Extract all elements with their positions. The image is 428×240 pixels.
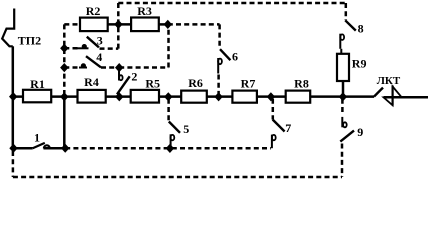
- wire riser to R3 node dashed: [167, 27, 170, 68]
- node R2-R3: [114, 20, 122, 29]
- resistor R4: [78, 90, 106, 103]
- switch 1 fixed contact: [44, 145, 50, 148]
- svg-text:9: 9: [357, 125, 363, 139]
- switch 5 blade: [169, 122, 180, 133]
- switch 6 fixed contact: [218, 58, 222, 74]
- switch 9 blade: [340, 131, 354, 142]
- wire sw9 drop dashed: [341, 99, 344, 113]
- node sw1-right: [61, 144, 69, 153]
- switch 2 fixed contact: [119, 71, 123, 81]
- contact LKT upper triangle: [393, 87, 402, 98]
- node sw4-left: [60, 63, 68, 72]
- wire left dashed rail: [63, 24, 66, 95]
- svg-text:7: 7: [285, 121, 291, 135]
- svg-text:1: 1: [34, 130, 40, 144]
- node R4-R5: [115, 92, 123, 101]
- wire bottom dashed rail: [13, 176, 342, 179]
- wire sw9 to bottom rail dashed: [341, 144, 344, 178]
- thermal contact TP2: [2, 9, 14, 47]
- svg-text:5: 5: [183, 122, 189, 136]
- wire middle dashed rail: [65, 147, 271, 150]
- wire LKT right: [384, 96, 428, 99]
- svg-text:R6: R6: [188, 76, 203, 90]
- wire R2 elbow dashed: [64, 23, 79, 26]
- switch 7 fixed contact: [272, 135, 276, 149]
- node sw5-bottom: [166, 144, 174, 153]
- svg-text:2: 2: [131, 70, 137, 84]
- wire R2-R3: [108, 23, 131, 26]
- node R6-R7: [214, 92, 222, 101]
- wire sw1 right segment: [44, 147, 66, 150]
- switch 8 blade: [345, 20, 356, 30]
- wire main line: [13, 95, 374, 98]
- node R9-bottom: [339, 92, 347, 101]
- wire sw6 to main dashed: [217, 75, 220, 95]
- node R1-right: [60, 92, 68, 101]
- contact LKT lower triangle: [384, 97, 393, 105]
- svg-text:R1: R1: [30, 77, 45, 91]
- switch 4 fixed contact: [79, 64, 87, 68]
- svg-text:3: 3: [97, 33, 103, 47]
- resistor R3: [131, 18, 159, 32]
- resistor R9: [337, 54, 349, 81]
- wire sw1 left segment: [13, 147, 33, 150]
- svg-text:ТП2: ТП2: [18, 33, 41, 47]
- switch 1 blade: [33, 143, 45, 148]
- node sw2-top: [115, 63, 123, 72]
- wire sw3 to riser dashed: [100, 47, 119, 50]
- svg-text:R3: R3: [137, 4, 152, 18]
- svg-text:R5: R5: [145, 76, 160, 90]
- svg-text:ЛКТ: ЛКТ: [377, 75, 401, 87]
- svg-text:4: 4: [96, 50, 102, 64]
- wire sw3 riser dashed: [117, 27, 120, 49]
- wire sw7 drop dashed: [272, 99, 275, 120]
- switch 5 fixed contact: [171, 134, 175, 147]
- switch 7 blade: [273, 120, 285, 132]
- wire top rail left drop: [117, 3, 120, 21]
- wire R3-right: [159, 23, 168, 26]
- svg-text:8: 8: [358, 22, 364, 36]
- wire left rail upper: [12, 46, 15, 96]
- wire top dashed rail: [118, 2, 345, 5]
- wire sw4 to node dashed: [101, 66, 119, 69]
- wire top rail right drop: [345, 3, 348, 20]
- node R3-right: [164, 20, 172, 29]
- resistor R6: [181, 91, 207, 103]
- resistor R2: [80, 18, 108, 32]
- node sw1-left: [9, 144, 17, 153]
- switch 4 blade: [86, 56, 101, 67]
- wire sw4 row lead dashed: [64, 66, 79, 69]
- switch 6 blade: [220, 49, 230, 60]
- wire sw3 row lead dashed: [64, 47, 77, 50]
- switch 3 blade: [87, 37, 99, 48]
- wire R3 to sw6 dashed: [168, 23, 220, 26]
- svg-text:R2: R2: [86, 4, 101, 18]
- node R5-R6: [164, 92, 172, 101]
- svg-text:R7: R7: [241, 76, 256, 90]
- wire sw5 drop dashed: [167, 99, 170, 122]
- switch 8 fixed contact: [340, 34, 344, 49]
- node sw3-left: [60, 44, 68, 53]
- wire R9 to main: [342, 81, 345, 97]
- node R7-R8: [267, 92, 275, 101]
- contact LKT bar: [392, 86, 394, 106]
- svg-text:R8: R8: [294, 76, 309, 90]
- wire bottom-left drop dashed: [12, 151, 15, 177]
- wire sw6 drop dashed: [218, 24, 221, 48]
- switch 2 blade: [117, 76, 130, 94]
- resistor R7: [232, 91, 257, 103]
- svg-text:6: 6: [232, 50, 238, 64]
- resistor R1: [23, 90, 51, 103]
- resistor R8: [286, 91, 311, 103]
- svg-text:R9: R9: [352, 56, 367, 70]
- switch 9 fixed contact: [342, 117, 346, 127]
- switch 3 fixed contact: [78, 45, 89, 49]
- wire switch8 to R9 dashed: [340, 49, 342, 54]
- wire left rail mid to sw1: [63, 97, 66, 149]
- wire left rail lower: [12, 97, 15, 149]
- node main-left: [9, 92, 17, 101]
- wire sw4 row to riser dashed: [119, 66, 168, 69]
- contact LKT blade: [374, 88, 383, 97]
- svg-text:R4: R4: [84, 75, 99, 89]
- resistor R5: [131, 90, 159, 103]
